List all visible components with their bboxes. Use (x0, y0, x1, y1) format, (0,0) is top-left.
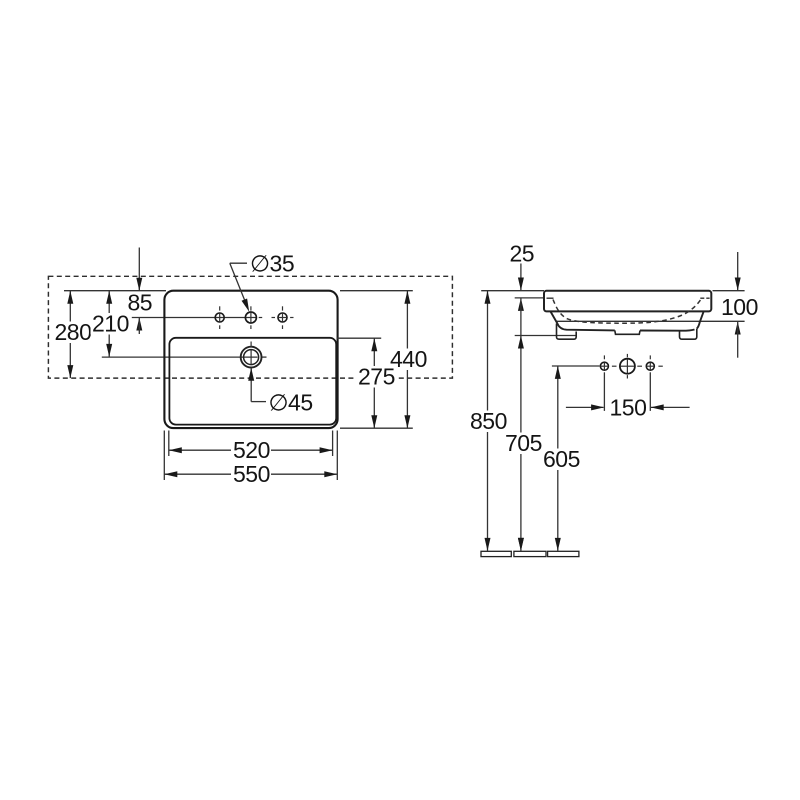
svg-text:∅45: ∅45 (269, 390, 313, 416)
faucet hole right (278, 313, 287, 322)
extension line: drain centerline (102, 356, 258, 358)
leader Ø45 (251, 401, 266, 403)
dim 850 (487, 291, 489, 551)
fixing hole left (600, 362, 608, 370)
extension line mounting level 25 below (515, 297, 544, 299)
extension lines right: rim top / basin bottom / bowl rim (340, 290, 413, 292)
svg-text:850: 850 (470, 408, 507, 434)
svg-text:100: 100 (721, 294, 758, 320)
left foot (556, 324, 576, 340)
dim 520 (169, 449, 333, 451)
dim 150 (566, 406, 604, 408)
fixing hole middle (620, 359, 635, 374)
extension line 100 top ref (713, 290, 745, 292)
svg-text:605: 605 (543, 446, 580, 472)
hidden mounting surface dashes (547, 297, 554, 299)
svg-text:85: 85 (128, 290, 153, 316)
svg-text:280: 280 (55, 319, 92, 345)
drain hole (241, 347, 262, 368)
hidden interior bowl curve (dashed) (553, 300, 701, 324)
svg-text:275: 275 (358, 364, 395, 390)
svg-text:210: 210 (92, 311, 129, 337)
svg-text:705: 705 (505, 430, 542, 456)
faucet hole left (215, 313, 224, 322)
extension lines bottom (168, 431, 170, 457)
extension line basin underside (705 ref) (515, 335, 577, 337)
extension line rim top (left of basin) (481, 290, 544, 292)
extension line 100 bottom ref (556, 320, 744, 322)
svg-text:440: 440 (390, 346, 427, 372)
extension line: faucet hole centerline (132, 317, 257, 319)
extension line to fixing holes (552, 365, 600, 367)
dim 85 (138, 248, 140, 291)
svg-text:25: 25 (510, 241, 535, 267)
dim 440 (406, 291, 408, 429)
rim block (544, 291, 711, 312)
basin inner bowl outline (169, 338, 336, 425)
fixing hole right (646, 362, 654, 370)
dim 100 (737, 252, 739, 291)
basin outer outline (164, 291, 337, 428)
dim 280 (69, 291, 71, 378)
dim 210 (108, 291, 110, 357)
dim 550 (164, 473, 337, 475)
dashed outline rectangle (countertop) (48, 276, 452, 378)
svg-text:520: 520 (233, 437, 270, 463)
leader Ø35 (230, 262, 247, 264)
svg-text:∅35: ∅35 (250, 251, 294, 277)
floor arrows (518, 538, 524, 551)
bowl outline (551, 312, 704, 331)
dim 25 (520, 263, 522, 291)
dim 275 (373, 338, 375, 428)
extension line: rim top left (64, 290, 166, 292)
right foot (680, 329, 697, 340)
svg-text:150: 150 (610, 395, 647, 421)
dim 705 (520, 298, 522, 551)
faucet hole middle (245, 312, 256, 323)
extension lines holes down to 150 dim (603, 372, 605, 411)
middle tab (615, 330, 640, 334)
centerline dashes between holes (612, 365, 617, 367)
svg-text:550: 550 (233, 461, 270, 487)
floor symbol rectangles (481, 551, 511, 556)
dim 605 (557, 366, 559, 551)
